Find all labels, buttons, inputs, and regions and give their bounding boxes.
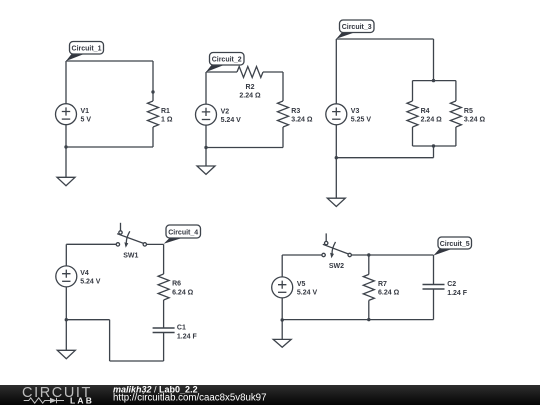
wire: R6 bottom to C1 top bbox=[163, 300, 165, 328]
svg-text:R2: R2 bbox=[246, 84, 255, 91]
svg-text:5.24 V: 5.24 V bbox=[80, 279, 101, 286]
node label Circuit_3 flag bbox=[336, 20, 374, 39]
voltage source V1 bbox=[56, 104, 92, 125]
ground: circuit2 bbox=[197, 148, 215, 175]
wire: circuit2 top-left horizontal (to R2) bbox=[206, 71, 237, 73]
wire: R7 bottom lead bbox=[368, 300, 370, 319]
svg-text:Circuit_2: Circuit_2 bbox=[212, 57, 242, 64]
node: parallel bottom junction dot bbox=[432, 144, 435, 147]
resistor R1 bbox=[148, 101, 173, 127]
wire: circuit5 bottom horizontal bbox=[282, 319, 433, 321]
svg-text:Circuit_5: Circuit_5 bbox=[440, 241, 470, 248]
svg-text:2.24 Ω: 2.24 Ω bbox=[239, 92, 261, 99]
svg-text:V2: V2 bbox=[221, 108, 230, 115]
wire: parallel top bus bbox=[413, 80, 456, 82]
wire: circuit3 left vertical (corner to V3) bbox=[335, 39, 337, 104]
ground: circuit5 bbox=[273, 320, 291, 347]
wire: circuit2 right vertical (to R3 top) bbox=[282, 72, 284, 101]
wire: circuit4 left vertical bottom (V4 to junction) bbox=[65, 287, 67, 320]
wire: circuit5 top horizontal to C2 corner bbox=[369, 254, 434, 256]
svg-text:V5: V5 bbox=[297, 281, 306, 288]
node: circuit5 bottom junction dot bbox=[281, 318, 284, 321]
svg-text:3.24 Ω: 3.24 Ω bbox=[291, 117, 313, 124]
svg-text:SW1: SW1 bbox=[123, 252, 138, 259]
resistor R4 bbox=[407, 101, 442, 127]
node: parallel top junction dot bbox=[432, 79, 435, 82]
wire: C1 bottom down bbox=[163, 333, 165, 362]
svg-text:V1: V1 bbox=[81, 108, 90, 115]
node: R1 top terminal junction dot bbox=[151, 90, 154, 93]
wire: circuit1 bottom horizontal bbox=[66, 146, 153, 148]
svg-text:5.25 V: 5.25 V bbox=[351, 117, 372, 124]
wire: parallel node down to bottom rail bbox=[433, 146, 435, 158]
node label Circuit_4 flag bbox=[164, 225, 201, 244]
wire: circuit5 left vertical bottom (V5 to junction) bbox=[281, 298, 283, 320]
wire: circuit3 top horizontal bbox=[336, 38, 433, 40]
wire: circuit2 top-right horizontal bbox=[263, 71, 283, 73]
wire: R4 bottom lead bbox=[412, 127, 414, 146]
voltage source V3 bbox=[326, 104, 372, 125]
resistor R5 bbox=[450, 101, 485, 127]
wire: circuit1 right vertical (to R1 top) bbox=[152, 61, 154, 101]
wire: circuit4 right vertical to R6 bbox=[163, 244, 165, 274]
wire: switch right terminal to corner bbox=[147, 243, 164, 245]
node: R7 bottom junction dot bbox=[367, 318, 370, 321]
svg-text:5.24 V: 5.24 V bbox=[221, 117, 242, 124]
wire: circuit4 top-left horizontal to switch bbox=[66, 243, 116, 245]
node: circuit1 bottom junction dot bbox=[64, 145, 67, 148]
svg-text:V4: V4 bbox=[80, 270, 89, 277]
wire: circuit4 mid horizontal to junction bbox=[66, 319, 109, 321]
node label Circuit_1 flag bbox=[66, 42, 104, 62]
svg-text:6.24 Ω: 6.24 Ω bbox=[172, 289, 194, 296]
node: circuit3 bottom junction dot bbox=[335, 156, 338, 159]
wire: circuit1 left vertical (top corner to V1) bbox=[65, 61, 67, 104]
wire: circuit5 left vertical top (corner to V5) bbox=[281, 255, 283, 277]
node label Circuit_5 flag bbox=[434, 237, 472, 256]
node: circuit2 bottom junction dot bbox=[204, 146, 207, 149]
svg-text:5 V: 5 V bbox=[81, 117, 92, 124]
wire: circuit3 bottom horizontal bbox=[336, 157, 433, 159]
node: R7 top junction dot bbox=[367, 253, 370, 256]
svg-text:1.24 F: 1.24 F bbox=[447, 290, 468, 297]
wire: circuit3 right vertical into parallel node bbox=[433, 39, 435, 81]
svg-text:2.24 Ω: 2.24 Ω bbox=[421, 117, 443, 124]
svg-text:R4: R4 bbox=[421, 108, 430, 115]
wire: R5 bottom lead bbox=[455, 127, 457, 146]
capacitor C2 bbox=[423, 281, 468, 297]
ground: circuit1 bbox=[57, 147, 75, 186]
wire: R5 top lead bbox=[455, 81, 457, 101]
svg-text:SW2: SW2 bbox=[329, 263, 344, 270]
wire: R7 top lead bbox=[368, 255, 370, 274]
svg-text:6.24 Ω: 6.24 Ω bbox=[378, 290, 400, 297]
svg-text:C1: C1 bbox=[177, 324, 186, 331]
svg-text:V3: V3 bbox=[351, 108, 360, 115]
svg-text:C2: C2 bbox=[447, 281, 456, 288]
svg-text:5.24 V: 5.24 V bbox=[297, 290, 318, 297]
wire: circuit1 right vertical (R1 bottom to corner) bbox=[152, 127, 154, 147]
ground: circuit4 bbox=[57, 320, 75, 359]
svg-text:R6: R6 bbox=[172, 281, 181, 288]
switch SW1 bbox=[116, 223, 146, 260]
resistor R7 bbox=[363, 274, 399, 300]
wire: R4 top lead bbox=[412, 81, 414, 101]
wire: circuit1 V1 bottom to ground junction bbox=[65, 125, 67, 147]
capacitor C1 bbox=[153, 324, 198, 340]
svg-text:1.24 F: 1.24 F bbox=[177, 333, 198, 340]
node: circuit4 bottom junction dot bbox=[65, 318, 68, 321]
svg-text:R5: R5 bbox=[464, 108, 473, 115]
wire: circuit4 bottom horizontal bbox=[110, 360, 164, 362]
svg-text:R1: R1 bbox=[161, 108, 170, 115]
svg-text:Circuit_4: Circuit_4 bbox=[168, 229, 198, 236]
resistor R3 bbox=[278, 101, 313, 127]
voltage source V4 bbox=[56, 266, 101, 287]
svg-text:LAB: LAB bbox=[70, 396, 94, 405]
svg-text:R3: R3 bbox=[291, 108, 300, 115]
wire: circuit1 top horizontal bbox=[66, 60, 153, 62]
wire: circuit5 right vertical (corner to C2 top) bbox=[433, 255, 435, 285]
logo squiggle resistor-diode bbox=[24, 398, 64, 403]
wire: circuit3 V3 bottom to junction bbox=[335, 125, 337, 158]
svg-text:http://circuitlab.com/caac8x5v: http://circuitlab.com/caac8x5v8uk97 bbox=[113, 393, 266, 404]
voltage source V2 bbox=[196, 104, 242, 125]
svg-text:Circuit_3: Circuit_3 bbox=[342, 24, 372, 31]
resistor R2 bbox=[237, 67, 263, 100]
wire: circuit2 bottom horizontal bbox=[206, 147, 283, 149]
voltage source V5 bbox=[272, 277, 318, 298]
wire: circuit5 top-left horizontal to switch bbox=[282, 254, 322, 256]
svg-text:3.24 Ω: 3.24 Ω bbox=[464, 117, 486, 124]
switch SW2 bbox=[322, 233, 352, 270]
wire: circuit4 left-bottom vertical riser bbox=[109, 320, 111, 361]
wire: switch right terminal to R7 node bbox=[351, 254, 368, 256]
svg-text:1 Ω: 1 Ω bbox=[161, 117, 173, 124]
node label Circuit_2 flag bbox=[206, 53, 244, 73]
wire: circuit2 left vertical (corner to V2) bbox=[205, 72, 207, 104]
svg-text:Circuit_1: Circuit_1 bbox=[72, 46, 102, 53]
ground: circuit3 bbox=[327, 158, 345, 207]
resistor R6 bbox=[158, 274, 194, 300]
wire: circuit2 right vertical (R3 bottom to corner) bbox=[282, 127, 284, 148]
wire: C2 bottom lead bbox=[433, 289, 435, 320]
wire: circuit4 left vertical top (corner to V4) bbox=[65, 244, 67, 266]
wire: circuit2 V2 bottom to junction bbox=[205, 125, 207, 147]
footer bar bbox=[0, 385, 540, 405]
wire: parallel bottom bus bbox=[413, 145, 456, 147]
svg-text:R7: R7 bbox=[378, 281, 387, 288]
